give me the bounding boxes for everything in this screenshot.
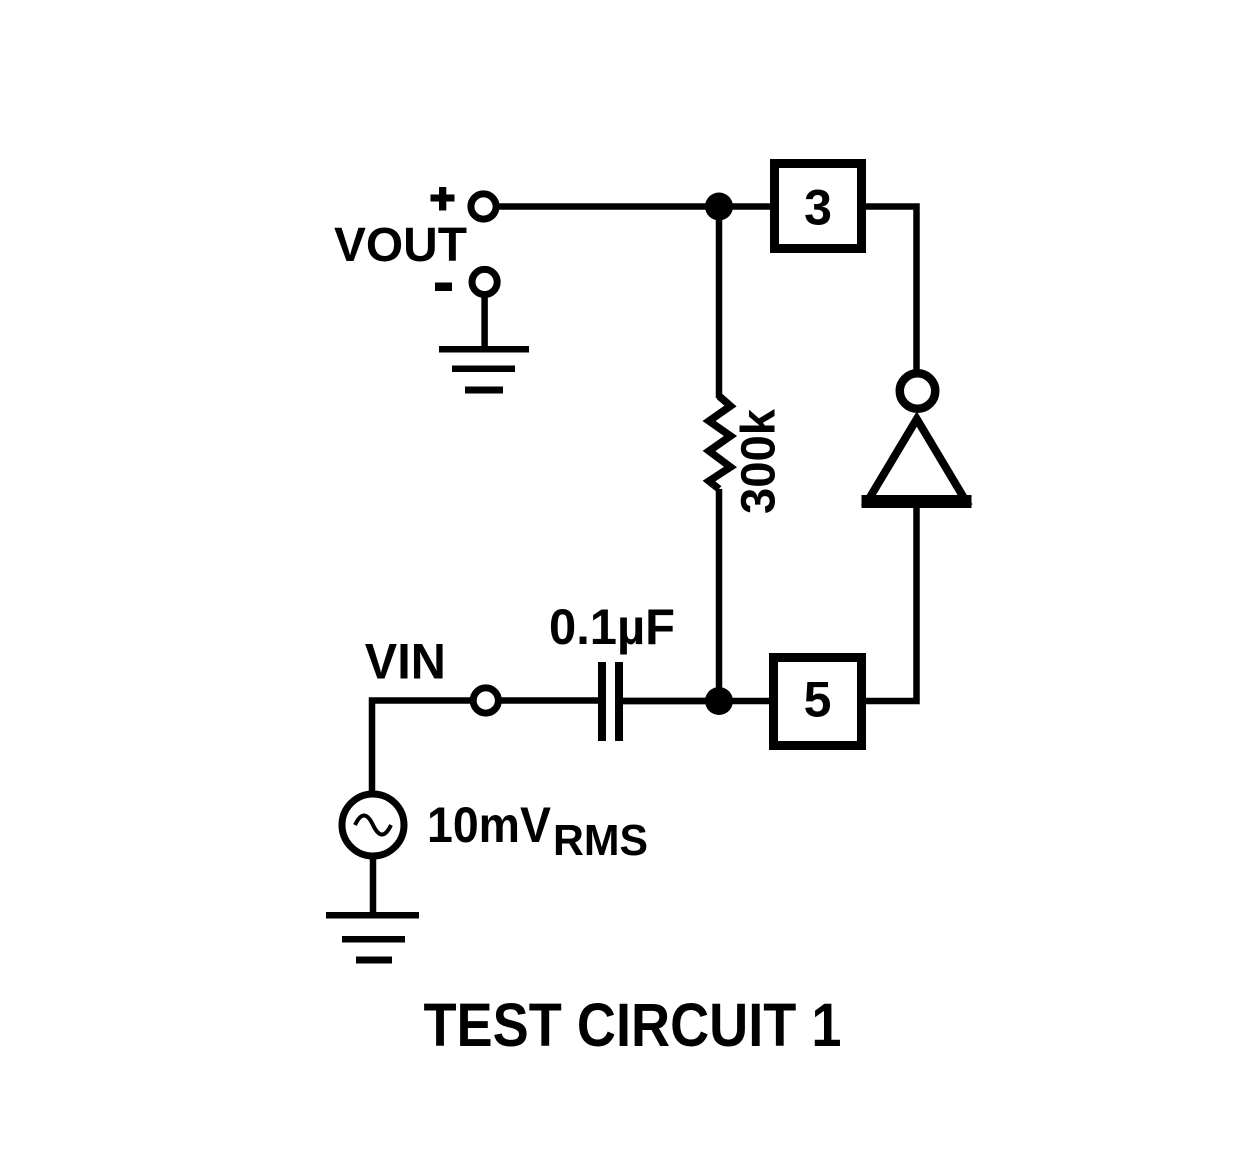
wire capacitor to node B	[623, 698, 719, 705]
plus sign	[431, 187, 455, 211]
wire resistor to node B	[716, 489, 723, 701]
ground (VIN)	[326, 912, 419, 964]
svg-text:TEST CIRCUIT 1: TEST CIRCUIT 1	[424, 991, 842, 1059]
node A junction	[705, 193, 733, 221]
ground (VOUT)	[439, 346, 529, 394]
capacitor C1 plates	[598, 662, 623, 741]
svg-text:3: 3	[804, 180, 832, 236]
resistor R1 300k	[709, 396, 731, 489]
svg-text:10mV: 10mV	[427, 797, 552, 853]
wire VOUT- to ground	[481, 294, 488, 349]
wire pin3 to inverter bubble	[862, 207, 917, 375]
wire VOUT+ to node A	[496, 203, 774, 210]
terminal VOUT-	[472, 269, 497, 294]
svg-text:RMS: RMS	[553, 816, 648, 865]
inverter triangle U1	[868, 419, 966, 501]
terminal VOUT+	[471, 194, 496, 219]
node B junction	[705, 687, 733, 715]
svg-text:5: 5	[804, 672, 832, 728]
wire node A to resistor	[716, 207, 723, 399]
inverter bubble	[900, 373, 936, 409]
svg-text:0.1µF: 0.1µF	[549, 599, 675, 655]
minus sign	[435, 283, 452, 292]
wire VIN terminal to capacitor	[497, 697, 599, 704]
svg-text:VOUT: VOUT	[334, 219, 467, 272]
wire inverter to pin 5	[862, 504, 917, 701]
svg-text:VIN: VIN	[365, 634, 446, 690]
AC source V1	[342, 794, 404, 856]
pin box 5	[774, 658, 862, 746]
wire source to ground	[370, 856, 377, 915]
terminal VIN	[473, 688, 498, 713]
sine wave	[355, 816, 391, 835]
pin box 3	[775, 164, 862, 249]
label 10mV RMS	[427, 797, 648, 865]
wire VIN to source	[372, 701, 473, 795]
wire pin5 to node B	[623, 698, 773, 705]
svg-text:300k: 300k	[733, 409, 786, 514]
